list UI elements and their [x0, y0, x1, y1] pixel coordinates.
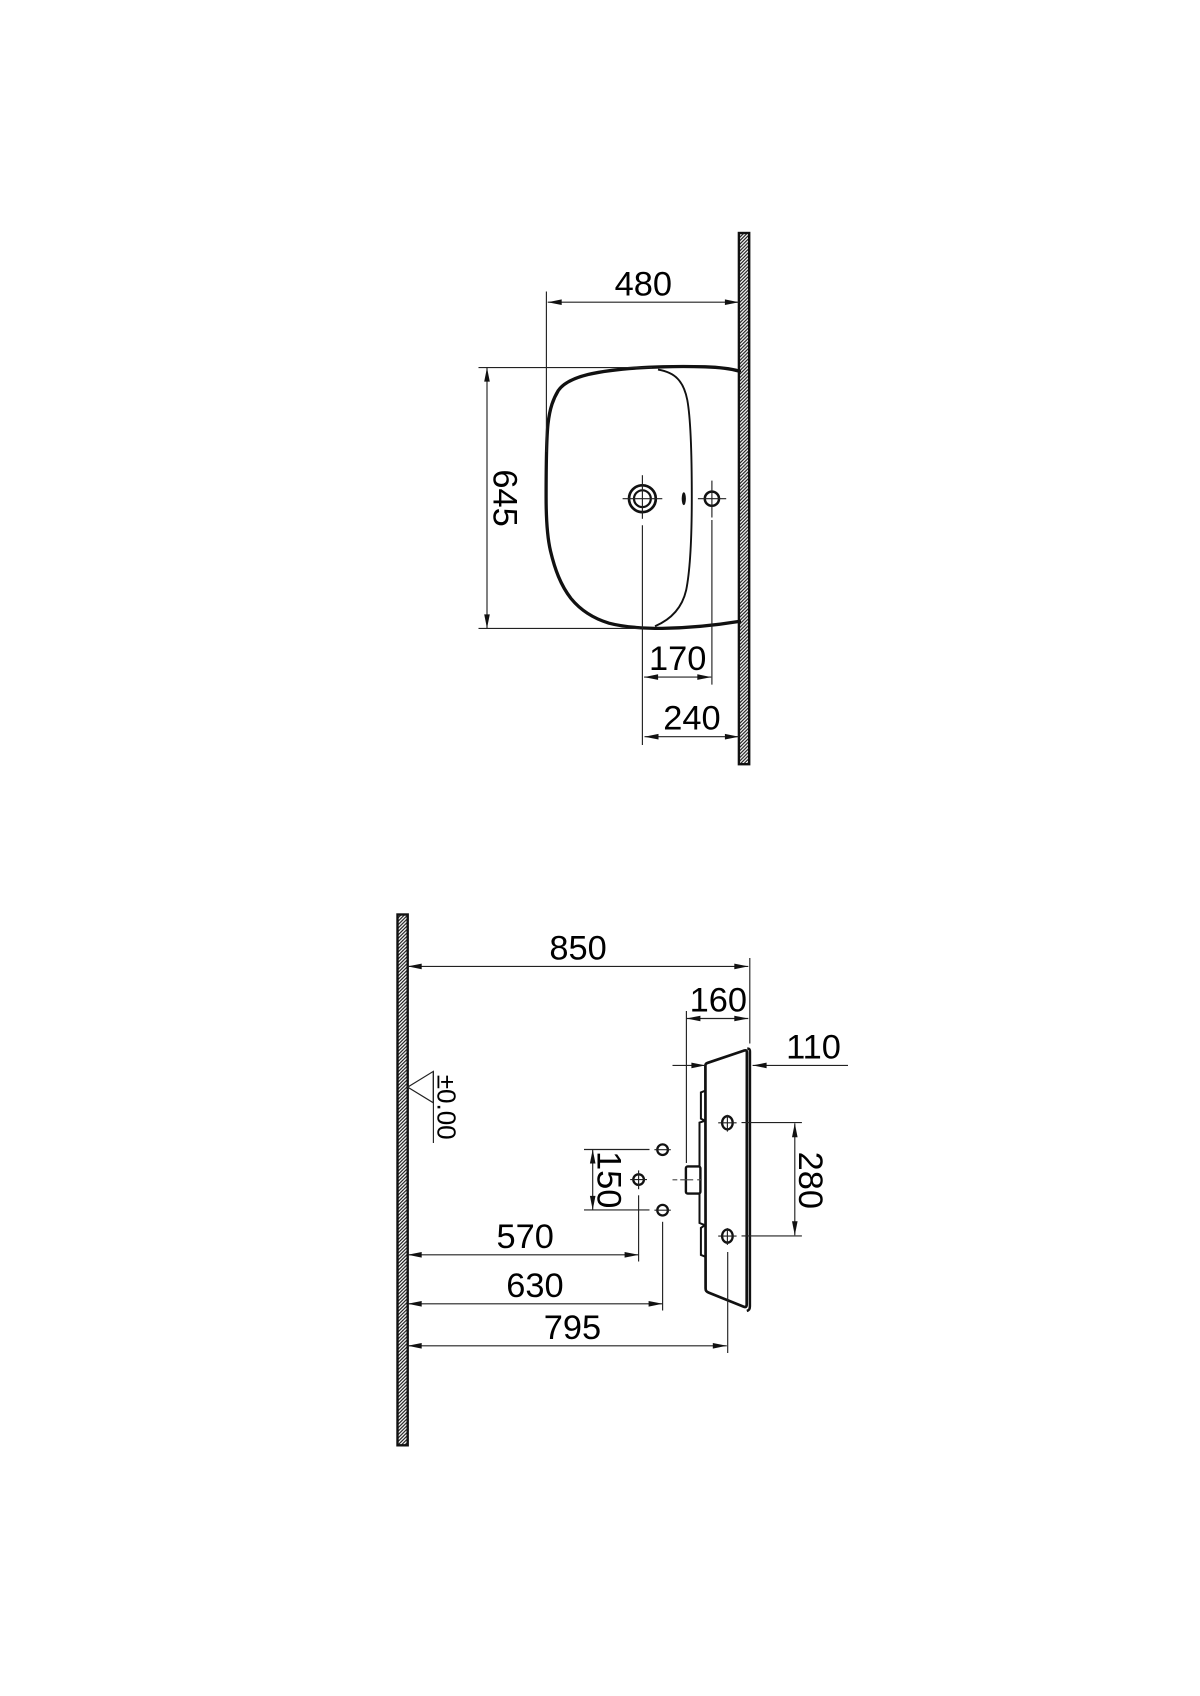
dimension 280 (mounting hole spacing) [742, 1123, 830, 1236]
faucet hole centerline horizontal [623, 498, 663, 500]
lower anchor hole [654, 1205, 670, 1216]
svg-text:280: 280 [791, 1152, 829, 1209]
svg-text:170: 170 [649, 640, 706, 678]
faucet hole outer circle [629, 485, 656, 512]
lower back tab (side view) [701, 1225, 706, 1257]
wall (plan view, hatched) [739, 233, 749, 764]
upper mounting hole [718, 1115, 736, 1132]
svg-text:850: 850 [549, 929, 606, 967]
svg-text:570: 570 [497, 1218, 554, 1256]
svg-text:160: 160 [690, 982, 747, 1020]
dimension 630 (wall to outer anchors) [408, 1222, 663, 1311]
svg-text:795: 795 [544, 1309, 601, 1347]
svg-text:±0.00: ±0.00 [432, 1075, 462, 1140]
svg-text:480: 480 [615, 265, 672, 303]
upper anchor hole [654, 1144, 670, 1155]
dimension 570 (wall to middle anchor) [408, 1195, 639, 1261]
dimension 160 (drain boss to front) [686, 982, 748, 1164]
basin outer rim outline (plan view) [546, 367, 739, 629]
basin front face outer line (side view) [747, 1049, 750, 1311]
wall (side view, hatched) [398, 915, 408, 1446]
datum level marker ±0.00 [408, 1071, 434, 1143]
dimension 480 (basin width) [546, 265, 739, 452]
faucet hole inner circle [634, 490, 651, 507]
drain boss (side view) [686, 1166, 701, 1193]
lower mounting hole [718, 1228, 736, 1245]
side hole centerline vertical [711, 481, 713, 518]
dimension 170 (hole spacing) [642, 520, 712, 745]
middle back ridge (side view) [700, 1121, 705, 1225]
label ±0.00 [432, 1075, 462, 1140]
svg-text:240: 240 [663, 700, 720, 738]
dimension 240 (faucet hole to wall) [645, 700, 739, 740]
upper back tab (side view) [701, 1091, 706, 1121]
dimension 110 (rim depth) [673, 1028, 849, 1068]
basin profile outline (side view) [705, 1050, 747, 1307]
basin inner bowl edge (plan view) [655, 370, 692, 627]
svg-text:150: 150 [589, 1151, 627, 1208]
dimension 850 (basin width from wall) [408, 929, 750, 1043]
svg-text:645: 645 [486, 469, 524, 526]
dimension 150 (anchor hole spacing) [584, 1150, 650, 1210]
dimension 645 (basin depth) [479, 368, 653, 629]
side hole centerline horizontal [698, 498, 726, 500]
svg-text:110: 110 [786, 1028, 841, 1066]
middle anchor hole [630, 1170, 647, 1189]
dimension 795 (wall to mounting holes) [408, 1252, 728, 1353]
svg-text:630: 630 [506, 1267, 563, 1305]
faucet hole centerline vertical [641, 475, 643, 519]
side hole circle [705, 492, 719, 506]
drain boss centerline [673, 1179, 702, 1181]
overflow slot [682, 492, 686, 505]
